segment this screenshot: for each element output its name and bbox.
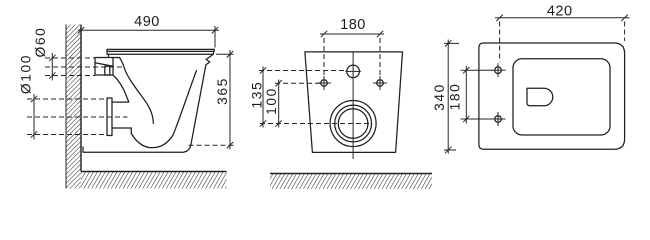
ground hatched strip: [270, 174, 432, 190]
fixing hole right: [373, 76, 387, 90]
dimension 340 (depth of top view): [432, 40, 459, 154]
centre line drain: [27, 116, 128, 118]
drain outlet flange: [107, 98, 112, 136]
extension line hole height: [275, 82, 320, 84]
extension lines Ø60: [45, 58, 95, 76]
pan body outline: [479, 43, 625, 149]
svg-text:135: 135: [250, 81, 265, 109]
svg-text:420: 420: [547, 4, 573, 20]
svg-text:365: 365: [215, 77, 230, 105]
inner rim outline: [513, 59, 610, 135]
bottom reference dashed line: [189, 144, 234, 146]
dimension 180 (hole spacing): [320, 17, 384, 76]
svg-text:180: 180: [340, 17, 366, 33]
water surface D-shape: [527, 88, 553, 106]
vertical centre line: [352, 52, 354, 159]
pan outer profile: [83, 54, 213, 152]
dimension Ø60: [33, 27, 56, 81]
centre line inlet: [45, 66, 122, 68]
bowl inner cavity: [131, 71, 196, 148]
horizontal centre line drain: [260, 123, 372, 125]
dimension 180 (hole spacing top view): [448, 66, 492, 124]
extension line inlet height: [259, 70, 347, 72]
drain pipe: [112, 102, 131, 133]
flush weir S-curve: [120, 58, 154, 124]
pan body trapezoid: [305, 52, 403, 152]
wall hatched section: [66, 25, 81, 189]
svg-text:Ø100: Ø100: [19, 54, 34, 94]
fixing hole left: [317, 76, 331, 90]
bowl outer left wall: [113, 75, 129, 102]
svg-text:340: 340: [432, 83, 447, 111]
svg-text:100: 100: [264, 87, 279, 115]
dimension Ø100: [19, 54, 38, 140]
svg-text:Ø60: Ø60: [33, 27, 48, 58]
svg-text:490: 490: [134, 14, 160, 30]
toilet seat / rim slab: [107, 49, 214, 54]
fixing hole top: [491, 63, 506, 77]
dimension 365 (height): [215, 50, 234, 150]
dimension 100: [264, 80, 282, 128]
dimension 420 (width): [495, 4, 630, 63]
inlet spigot box: [95, 54, 120, 75]
dimension 135: [250, 67, 267, 128]
fixing hole bottom: [491, 112, 506, 126]
drain outlet circles: [330, 101, 376, 147]
floor hatched section: [81, 172, 227, 189]
svg-text:180: 180: [448, 83, 463, 111]
water inlet hole: [347, 65, 360, 78]
dimension 490 (depth): [78, 14, 219, 48]
extension lines Ø100: [27, 99, 107, 135]
